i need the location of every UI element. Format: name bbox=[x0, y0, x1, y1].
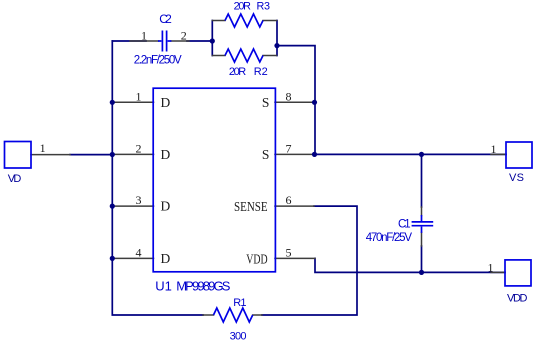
svg-text:6: 6 bbox=[286, 193, 292, 207]
svg-text:R3: R3 bbox=[257, 1, 271, 13]
svg-text:D: D bbox=[161, 199, 171, 214]
svg-text:D: D bbox=[161, 251, 171, 266]
svg-text:VS: VS bbox=[509, 172, 524, 184]
svg-text:3: 3 bbox=[136, 193, 142, 207]
svg-text:VDD: VDD bbox=[246, 252, 268, 267]
svg-text:S: S bbox=[262, 95, 270, 110]
svg-text:1: 1 bbox=[141, 28, 147, 42]
svg-text:8: 8 bbox=[286, 89, 292, 103]
svg-text:VDD: VDD bbox=[507, 293, 528, 305]
svg-text:D: D bbox=[161, 95, 171, 110]
svg-text:2: 2 bbox=[136, 141, 142, 155]
svg-text:S: S bbox=[262, 147, 270, 162]
svg-text:1: 1 bbox=[488, 260, 494, 274]
svg-text:R1: R1 bbox=[233, 297, 246, 309]
svg-text:470nF/25V: 470nF/25V bbox=[366, 232, 413, 244]
svg-text:2: 2 bbox=[181, 28, 187, 42]
svg-text:2.2nF/250V: 2.2nF/250V bbox=[134, 55, 182, 67]
svg-text:1: 1 bbox=[40, 141, 46, 155]
svg-text:MP9989GS: MP9989GS bbox=[176, 278, 231, 293]
svg-text:C1: C1 bbox=[398, 219, 411, 231]
svg-text:1: 1 bbox=[491, 142, 497, 156]
svg-text:7: 7 bbox=[286, 141, 292, 155]
svg-text:U1: U1 bbox=[155, 278, 172, 293]
svg-text:VD: VD bbox=[8, 173, 22, 185]
svg-text:20R: 20R bbox=[229, 66, 246, 78]
svg-text:4: 4 bbox=[136, 245, 142, 259]
svg-text:C2: C2 bbox=[159, 12, 172, 26]
svg-text:R2: R2 bbox=[254, 66, 268, 78]
svg-text:1: 1 bbox=[136, 89, 142, 103]
svg-text:20R: 20R bbox=[234, 1, 251, 13]
svg-text:D: D bbox=[161, 147, 171, 162]
svg-text:300: 300 bbox=[230, 331, 247, 343]
svg-text:SENSE: SENSE bbox=[234, 199, 268, 214]
svg-text:5: 5 bbox=[286, 245, 292, 259]
